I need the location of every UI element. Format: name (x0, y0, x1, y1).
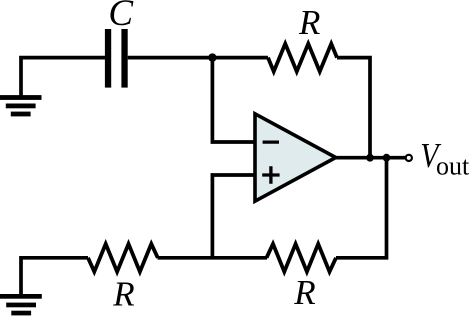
node junction (cap / R1 / inverting input) (208, 53, 216, 61)
ground GND1 top-left (0, 95, 42, 116)
node dot (feedback / output) (366, 154, 374, 162)
resistor R3 (bottom right) (267, 244, 337, 272)
output terminal (open circle) (406, 155, 412, 161)
wire op-amp output (335, 156, 406, 160)
wire output node down to bottom rail corner (336, 158, 387, 258)
capacitor C1 (105, 29, 128, 88)
svg-text:R: R (112, 274, 134, 313)
wire noninverting input to bottom rail (212, 175, 255, 258)
resistor R2 (bottom left) (88, 244, 158, 272)
svg-text:R: R (298, 3, 320, 42)
op-amp plus symbol (262, 166, 279, 183)
op-amp minus symbol (263, 140, 279, 143)
op-amp U1 (255, 114, 336, 201)
ground GND2 bottom-left (0, 294, 42, 315)
wire node down to inverting input (212, 58, 255, 142)
wire bottom rail left (ground to R2) (21, 258, 88, 295)
wire top rail left (ground to capacitor) (21, 58, 106, 96)
svg-text:R: R (293, 273, 315, 312)
wire capacitor to resistor R1 (through node) (128, 56, 268, 60)
node dot (divider / output) (383, 154, 391, 162)
svg-text:out: out (436, 152, 470, 181)
wire bottom rail middle (R2 to R3 through + node) (158, 256, 268, 260)
wire R1 to feedback corner down to output node (337, 58, 370, 158)
resistor R1 (top feedback) (268, 44, 337, 72)
svg-text:C: C (108, 0, 134, 34)
